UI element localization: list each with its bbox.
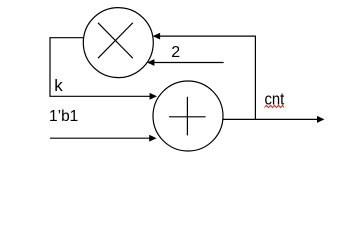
svg-text:1’b1: 1’b1 <box>49 108 78 125</box>
svg-text:k: k <box>54 76 63 95</box>
svg-text:2: 2 <box>171 44 180 61</box>
